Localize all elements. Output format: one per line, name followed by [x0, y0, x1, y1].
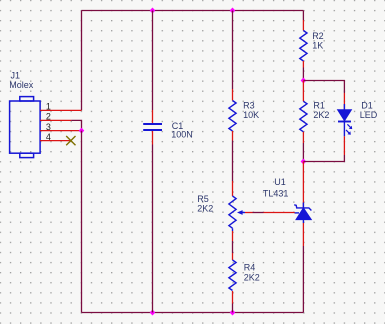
label J1 Molex: [9, 70, 34, 90]
svg-text:100N: 100N: [171, 130, 193, 140]
svg-text:R5: R5: [197, 194, 209, 204]
pin 1 stub: [40, 109, 81, 111]
resistor R2: [300, 31, 307, 61]
wire: top bus corner down to R2: [302, 11, 304, 21]
wire: top bus: [82, 10, 304, 12]
svg-text:R2: R2: [312, 31, 324, 41]
U1 TL431 cathode stub: [302, 203, 304, 208]
capacitor C1 plates: [143, 124, 162, 130]
diode D1 top lead: [343, 93, 345, 110]
label R1 2K2: [313, 101, 329, 121]
connector J1 body: [10, 97, 40, 158]
diode D1 (LED) triangle: [338, 110, 352, 121]
resistor R1 bottom lead: [302, 132, 304, 143]
svg-text:U1: U1: [274, 177, 286, 187]
node: junction top bus / C1: [150, 8, 156, 14]
resistor R5 wiper arrow: [237, 210, 243, 215]
wire: left vertical from top bus to J1 pin 1: [81, 11, 83, 111]
resistor R1 top lead: [302, 81, 304, 102]
U1 TL431 cathode bar with bent ends: [294, 205, 311, 211]
svg-text:R3: R3: [243, 100, 255, 110]
resistor R4: [229, 260, 236, 291]
diode D1 blue stub below: [343, 104, 345, 136]
wire: pin 2 over to pin 3 junction: [71, 120, 81, 130]
svg-text:LED: LED: [360, 110, 378, 120]
diode D1 bottom lead: [343, 136, 345, 155]
resistor R2 bottom lead: [302, 61, 304, 68]
resistor R1: [300, 101, 307, 132]
U1 TL431 triangle: [296, 208, 311, 220]
label U1 TL431: [263, 177, 289, 198]
U1 anode lead: [302, 223, 304, 246]
node: junction top bus / R3: [230, 8, 236, 14]
U1 anode stub: [302, 220, 304, 223]
node: junction pin 2 / pin 3: [79, 128, 85, 134]
wire: D1 bottom to junction: [303, 155, 344, 162]
resistor R2 top lead: [302, 20, 304, 31]
diode D1 emission arrows: [346, 124, 352, 134]
wire: U1 anode to bottom bus: [302, 246, 304, 313]
pin 4 stub: [40, 140, 71, 142]
label R2 1K: [312, 31, 324, 51]
resistor R5 top lead: [232, 181, 234, 196]
resistor R3 top lead: [232, 89, 234, 101]
svg-text:3: 3: [46, 122, 51, 132]
wire: C1 branch lower: [152, 145, 154, 313]
wire: R4 to bottom bus: [232, 304, 234, 313]
pin 2 stub: [40, 119, 71, 121]
pin numbers 1 2 3 4: [46, 102, 51, 142]
wire: bottom bus: [82, 312, 304, 314]
svg-text:Molex: Molex: [9, 80, 34, 90]
resistor R3 bottom lead: [232, 131, 234, 141]
svg-text:10K: 10K: [243, 110, 259, 120]
resistor R3: [229, 101, 236, 132]
label R5 2K2: [197, 194, 213, 214]
no-connect X on pin 4: [66, 136, 75, 145]
capacitor C1 top lead: [152, 110, 154, 123]
wire: R2 to junction: [302, 68, 304, 81]
diode D1 cathode bar: [338, 121, 351, 123]
wire: between R3 and R5: [232, 141, 234, 182]
node: junction bottom bus / R4: [230, 310, 236, 316]
U1 ref stub: [295, 212, 300, 214]
svg-text:J1: J1: [11, 70, 21, 80]
label C1 100N: [171, 121, 193, 140]
svg-text:2K2: 2K2: [313, 110, 329, 120]
svg-text:R4: R4: [244, 263, 256, 273]
svg-text:1: 1: [46, 102, 51, 112]
node: junction R2 / R1 / D1: [301, 78, 307, 84]
wire: C1 branch upper: [152, 11, 154, 111]
wire: left vertical down to bottom bus: [81, 131, 83, 313]
svg-text:2: 2: [46, 112, 51, 122]
capacitor C1 bottom lead: [152, 131, 154, 145]
node: junction R1 / D1 / U1: [301, 159, 307, 165]
wire: R5 wiper to U1 ref: [245, 212, 295, 214]
label D1 LED: [360, 101, 378, 121]
resistor R4 bottom lead: [232, 291, 234, 304]
svg-text:4: 4: [46, 132, 51, 142]
wire: junction over to D1 top: [303, 81, 344, 94]
svg-text:2K2: 2K2: [197, 204, 213, 214]
resistor R5 bottom lead: [232, 231, 234, 241]
resistor R5 (potentiometer): [229, 196, 236, 228]
svg-text:R1: R1: [313, 101, 325, 111]
svg-text:1K: 1K: [312, 41, 323, 51]
svg-text:TL431: TL431: [263, 189, 289, 199]
wire: R3 branch from top bus: [232, 11, 234, 90]
label R3 10K: [243, 100, 259, 120]
resistor R4 top lead: [232, 253, 234, 260]
resistor R5 bottom stub: [232, 228, 234, 231]
wire: R1 down to junction: [302, 143, 304, 162]
wire: between R5 and R4: [232, 241, 234, 253]
node: junction bottom bus / C1: [150, 310, 156, 316]
svg-text:D1: D1: [361, 101, 373, 111]
svg-text:2K2: 2K2: [244, 272, 260, 282]
U1 cathode lead: [302, 162, 304, 208]
pin 3 stub: [40, 130, 81, 132]
label R4 2K2: [244, 263, 260, 283]
